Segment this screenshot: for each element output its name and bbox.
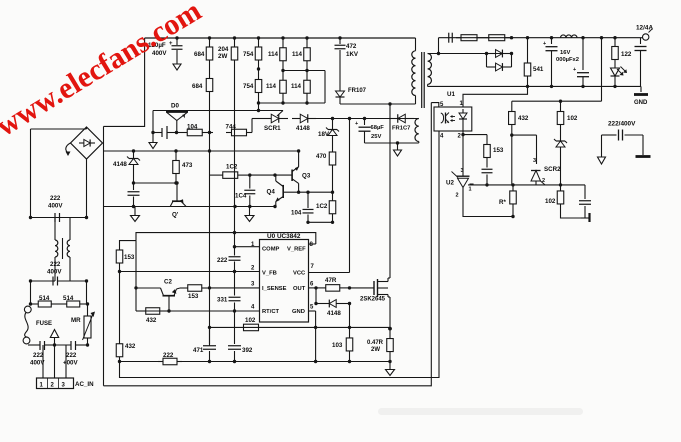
wire choke left bot xyxy=(31,257,56,281)
svg-text:+: + xyxy=(543,41,546,47)
svg-text:102: 102 xyxy=(567,115,578,122)
svg-text:4: 4 xyxy=(251,305,255,311)
text 222/400V xyxy=(608,121,636,128)
capacitor Qp base xyxy=(128,183,140,207)
svg-text:3: 3 xyxy=(533,158,536,164)
svg-text:GND: GND xyxy=(634,100,648,106)
wire 102b bottom xyxy=(561,210,582,218)
svg-text:1: 1 xyxy=(469,187,472,193)
scan smudge xyxy=(378,408,583,415)
wire AC left rail 2 xyxy=(30,281,32,304)
transistor C2 xyxy=(136,279,180,313)
wire gndpin down xyxy=(315,327,317,361)
ground y right xyxy=(636,135,651,157)
pin 8 V_REF xyxy=(287,242,316,253)
wire line 327 xyxy=(210,326,391,328)
inductor sec filter xyxy=(561,35,578,38)
wire AC left rail xyxy=(30,129,32,218)
wire choke right top xyxy=(69,218,71,241)
wire rtct right xyxy=(170,310,260,312)
diode FR107 aux xyxy=(389,114,414,131)
text 16V 1000uFx2 xyxy=(556,50,579,63)
wire 114 bottom link xyxy=(259,102,326,104)
capacitor 1C4 xyxy=(235,175,255,206)
opto pin1 xyxy=(460,101,464,107)
resistor 1C2 b xyxy=(316,192,336,222)
svg-text:SCR2: SCR2 xyxy=(544,166,561,173)
wire out to 4148 xyxy=(315,288,317,304)
svg-text:MR: MR xyxy=(71,317,81,324)
wire line 192 xyxy=(283,191,332,193)
opto arrows xyxy=(450,115,455,122)
svg-text:1C2: 1C2 xyxy=(316,203,328,210)
diode FR107 snubber xyxy=(336,84,367,104)
resistor 47R xyxy=(316,277,350,291)
resistor 153 left xyxy=(116,245,135,268)
svg-text:I_SENSE: I_SENSE xyxy=(262,286,287,292)
fuse FUSE xyxy=(23,306,52,344)
watermark www.elecfans.com xyxy=(0,0,207,143)
svg-text:153: 153 xyxy=(188,293,199,300)
resistor 541 xyxy=(524,57,544,82)
node ac mid triangle xyxy=(50,330,58,347)
optocoupler U1 box xyxy=(434,91,472,131)
wire u2 ref xyxy=(470,183,474,186)
ground below D0 row xyxy=(149,133,157,149)
diode rect upper xyxy=(487,50,512,58)
wire 114 row link xyxy=(283,70,325,72)
wire sec gnd rail xyxy=(428,85,641,87)
node 114 bottoms xyxy=(257,101,309,104)
node bus junction xyxy=(175,36,178,39)
svg-text:222/400V: 222/400V xyxy=(608,121,636,128)
svg-text:222: 222 xyxy=(217,257,228,264)
node xcap1 xyxy=(29,216,88,219)
svg-text:18V: 18V xyxy=(318,131,330,138)
svg-text:3: 3 xyxy=(251,282,255,288)
wire drain xyxy=(388,104,390,278)
wire reg right drop xyxy=(584,185,586,199)
svg-text:2W: 2W xyxy=(218,53,227,60)
svg-text:FUSE: FUSE xyxy=(36,321,52,327)
svg-text:25V: 25V xyxy=(371,134,381,140)
wire 754 to gate line xyxy=(257,103,260,112)
svg-text:U0 UC3842: U0 UC3842 xyxy=(267,233,301,240)
svg-text:16V: 16V xyxy=(560,50,570,56)
wire line151 xyxy=(104,150,299,152)
svg-text:+: + xyxy=(355,121,358,127)
svg-text:0.47R: 0.47R xyxy=(367,340,384,346)
resistor 754 lower xyxy=(243,69,262,103)
svg-text:RT/CT: RT/CT xyxy=(262,309,280,315)
svg-text:OUT: OUT xyxy=(293,286,306,292)
svg-text:SCR1: SCR1 xyxy=(264,125,281,132)
node zener top xyxy=(331,117,334,120)
wire 432 left drop xyxy=(119,272,121,340)
wire isense rail xyxy=(209,133,211,347)
pin 3 I_SENSE xyxy=(210,282,287,293)
svg-text:FR1C7: FR1C7 xyxy=(392,126,410,132)
ground aux xyxy=(394,143,402,156)
wire scr2 anode link xyxy=(512,135,537,164)
svg-text:COMP: COMP xyxy=(262,247,280,253)
led indicator xyxy=(611,62,628,86)
resistor R* sec xyxy=(499,185,516,210)
capacitor output xyxy=(635,38,647,87)
svg-text:122: 122 xyxy=(621,51,632,58)
svg-text:514: 514 xyxy=(39,295,50,302)
svg-text:471: 471 xyxy=(193,347,204,354)
wire gate line xyxy=(350,287,375,289)
resistor 153 sec xyxy=(484,141,504,161)
svg-text:4148: 4148 xyxy=(113,161,127,168)
wire gnd line 206 xyxy=(104,206,276,208)
resistor 102 sec xyxy=(557,101,578,128)
transformer core xyxy=(422,52,425,108)
resistor 744 xyxy=(226,123,253,135)
inductor common-mode choke xyxy=(55,238,70,259)
wire 744 to SCR1 xyxy=(252,119,262,133)
wire vref loop xyxy=(136,233,316,244)
resistor 473 xyxy=(173,151,193,183)
svg-text:432: 432 xyxy=(125,343,136,350)
ground sec reg xyxy=(581,213,590,222)
wire bridge plus rail xyxy=(103,126,105,385)
opto pin2 xyxy=(458,131,465,140)
capacitor 471 xyxy=(193,327,216,361)
wire 153 to vfb xyxy=(118,268,121,273)
wire pin2 node right xyxy=(463,135,487,141)
wire choke left top xyxy=(54,218,56,241)
capacitor Y 222/400V xyxy=(602,130,644,141)
resistor 432 rtct xyxy=(136,308,170,324)
svg-text:3: 3 xyxy=(461,168,464,174)
svg-text:5: 5 xyxy=(310,305,314,311)
node bus junction xyxy=(257,36,260,39)
svg-text:222: 222 xyxy=(33,352,44,359)
svg-text:U2: U2 xyxy=(446,180,454,187)
svg-text:432: 432 xyxy=(146,317,157,324)
svg-text:V_REF: V_REF xyxy=(287,247,306,253)
capacitor 1000uF b xyxy=(573,38,589,87)
node sec top xyxy=(437,52,513,55)
opto transistor xyxy=(441,113,449,124)
svg-text:AC_IN: AC_IN xyxy=(75,381,94,388)
svg-text:GND: GND xyxy=(292,309,305,315)
svg-text:432: 432 xyxy=(518,115,529,122)
wire 541 top xyxy=(527,38,529,57)
wire SCR1 gate link xyxy=(277,111,283,117)
node led supply xyxy=(559,100,562,103)
resistor 103 xyxy=(332,327,353,361)
svg-text:222: 222 xyxy=(163,352,174,359)
resistor sec snub 1 xyxy=(456,35,482,41)
capacitor 472 1KV xyxy=(335,38,359,84)
svg-text:102: 102 xyxy=(545,198,556,205)
node line206 xyxy=(132,205,277,208)
svg-text:222: 222 xyxy=(50,261,61,268)
svg-text:331: 331 xyxy=(217,297,228,304)
capacitor 222/400V ac right xyxy=(55,341,88,367)
connector AC_IN 1 2 3 xyxy=(37,378,95,389)
node bus junction xyxy=(233,36,236,39)
wire bridge top xyxy=(31,127,87,129)
resistor 514 b xyxy=(59,295,88,307)
svg-text:4: 4 xyxy=(440,134,444,140)
wire sec top lead xyxy=(428,53,512,55)
svg-text:+: + xyxy=(573,67,576,73)
wire aux gnd line xyxy=(365,142,419,144)
wire vref loop left xyxy=(120,241,137,311)
thyristor SCR1 xyxy=(262,114,288,132)
wire bus to bridge link xyxy=(104,38,145,126)
ground source xyxy=(386,362,395,376)
node vcc tap xyxy=(348,117,366,120)
transistor D0 xyxy=(153,103,283,133)
capacitor sec snubber xyxy=(449,33,453,43)
pin 5 GND xyxy=(292,305,316,316)
varistor MR xyxy=(71,304,95,347)
node line192 xyxy=(297,191,334,194)
resistor 204 2W xyxy=(218,38,238,69)
svg-text:472: 472 xyxy=(346,43,357,50)
svg-text:2: 2 xyxy=(456,193,459,199)
svg-text:541: 541 xyxy=(533,66,544,73)
node vref loop xyxy=(233,231,236,234)
resistor 514 a xyxy=(31,295,60,307)
svg-text:684: 684 xyxy=(194,51,205,58)
wire gate node down xyxy=(349,304,351,328)
resistor 114 c xyxy=(292,38,310,71)
capacitor X 222/400V lower xyxy=(47,261,62,286)
transformer aux winding xyxy=(415,119,419,144)
wire fb tap xyxy=(463,86,528,107)
node 47R right xyxy=(348,286,351,289)
svg-text:104: 104 xyxy=(187,123,198,130)
svg-text:754: 754 xyxy=(243,83,254,90)
wire xcap1 row xyxy=(31,217,87,219)
capacitor X 222/400V upper xyxy=(48,195,63,222)
pin 6 OUT xyxy=(293,282,316,293)
node 4148 ends xyxy=(314,302,351,305)
svg-text:VCC: VCC xyxy=(293,271,306,277)
resistor 114 b xyxy=(266,71,286,104)
svg-text:102: 102 xyxy=(245,317,256,324)
node bus junction xyxy=(305,36,308,39)
resistor 754 upper xyxy=(243,38,262,69)
opto led xyxy=(459,109,467,131)
svg-text:D0: D0 xyxy=(171,103,179,110)
svg-text:400V: 400V xyxy=(47,269,62,276)
svg-text:400V: 400V xyxy=(48,203,63,210)
wire gnd line 361 b xyxy=(182,361,390,363)
node bus junction xyxy=(208,36,211,39)
wire 4148-473 link xyxy=(134,172,178,183)
wire sec bus xyxy=(439,37,641,39)
diode rect lower xyxy=(487,63,512,71)
capacitor 68uF 25V xyxy=(355,119,384,144)
wire snubber bottom xyxy=(340,103,390,105)
wire 432 sec down xyxy=(510,128,513,185)
svg-text:684: 684 xyxy=(192,83,203,90)
wire right of 114 bank xyxy=(324,71,326,104)
resistor 102 sec2 xyxy=(545,185,564,210)
capacitor 1000uF a xyxy=(543,38,558,87)
capacitor 104 q xyxy=(291,192,314,224)
svg-text:222: 222 xyxy=(50,195,61,202)
wire diode row to vcc node xyxy=(316,118,419,120)
wire D0 left leg xyxy=(152,111,154,133)
wire u2 cathode xyxy=(462,135,464,169)
pin 2 V_FB xyxy=(120,266,277,277)
svg-text:4148: 4148 xyxy=(327,310,341,317)
svg-text:2: 2 xyxy=(458,134,462,140)
wire reg line 184.9 xyxy=(468,184,585,186)
svg-text:392: 392 xyxy=(242,347,253,354)
node 514 row xyxy=(29,302,89,305)
wire 1C2b bottom xyxy=(308,221,334,224)
capacitor 392 xyxy=(228,311,253,362)
mosfet 2SK2645 xyxy=(360,278,388,303)
wire 470 to line192 xyxy=(332,172,334,192)
wire led supply xyxy=(512,36,603,105)
resistor 1C2 q3 xyxy=(210,164,252,179)
resistor 222 gnd xyxy=(158,352,182,365)
wire 684 chain down xyxy=(209,101,211,133)
opto pin5 xyxy=(431,102,444,108)
wire cap row xyxy=(153,132,177,134)
wire sec winding bottom xyxy=(427,84,429,86)
svg-text:204: 204 xyxy=(218,46,229,53)
svg-text:3: 3 xyxy=(62,383,66,389)
node reg line xyxy=(485,183,562,186)
zener 4148 left xyxy=(113,151,140,172)
transistor Qp xyxy=(170,181,186,218)
resistor 114 d xyxy=(291,71,310,104)
bridge rectifier xyxy=(66,127,103,159)
wire vcc drop xyxy=(349,119,351,273)
svg-text:103: 103 xyxy=(332,342,343,349)
wire q3 base line xyxy=(251,174,292,176)
svg-text:2: 2 xyxy=(51,383,55,389)
svg-text:47R: 47R xyxy=(325,277,337,284)
svg-text:Q': Q' xyxy=(172,212,179,219)
wire mr rail xyxy=(86,281,88,304)
svg-text:8: 8 xyxy=(310,242,314,248)
wire comp stub xyxy=(244,246,246,248)
resistor 432 sec xyxy=(509,105,529,128)
wire rect lower branch xyxy=(487,54,512,68)
resistor 432 left xyxy=(116,339,136,362)
node comp xyxy=(233,245,245,273)
svg-text:000µFx2: 000µFx2 xyxy=(556,57,579,63)
ground arrow mid xyxy=(245,207,254,222)
svg-text:V_FB: V_FB xyxy=(262,271,277,277)
node sec bus xyxy=(510,36,617,39)
capacitor 153 comp xyxy=(482,161,493,185)
terminal 12/4A xyxy=(636,25,653,41)
svg-text:C2: C2 xyxy=(164,279,172,286)
zener sec xyxy=(554,128,567,185)
svg-text:104: 104 xyxy=(291,210,302,217)
node line327 xyxy=(314,326,392,331)
svg-text:6: 6 xyxy=(310,282,314,288)
node sec gnd rail xyxy=(526,85,617,88)
diode 4148 row xyxy=(292,114,316,132)
svg-text:470: 470 xyxy=(316,153,327,160)
node bus junction xyxy=(281,36,284,39)
ground below 120uF xyxy=(173,57,181,70)
capacitor 331 xyxy=(217,272,241,313)
ground sec xyxy=(634,86,648,106)
thyristor SCR2 xyxy=(531,158,561,185)
transformer primary winding xyxy=(390,38,416,104)
svg-text:1KV: 1KV xyxy=(346,51,359,58)
resistor sec snub 2 xyxy=(482,35,512,41)
capacitor 120uF/400V xyxy=(148,38,183,57)
node xcap2 xyxy=(29,279,88,282)
wire primary ground rail xyxy=(120,131,440,378)
tl431 U2 xyxy=(446,168,472,199)
svg-text:2: 2 xyxy=(542,178,545,184)
wire main HV bus xyxy=(145,37,416,39)
svg-text:Q3: Q3 xyxy=(302,173,311,180)
pin 1 COMP xyxy=(245,242,280,253)
node snubber-drain xyxy=(388,102,391,105)
resistor 104 xyxy=(177,123,214,135)
wire u2 anode xyxy=(463,190,513,217)
node line151 xyxy=(132,149,300,152)
svg-text:68µF: 68µF xyxy=(371,125,385,131)
svg-text:153: 153 xyxy=(493,147,504,154)
svg-text:2SK2645: 2SK2645 xyxy=(360,297,386,303)
wire 541 bottom xyxy=(527,82,529,86)
diode 4148 gate xyxy=(316,300,350,317)
svg-text:744: 744 xyxy=(226,123,237,130)
transistor Q3 xyxy=(292,151,311,192)
svg-text:473: 473 xyxy=(182,162,193,169)
wire r* bottom xyxy=(511,210,514,218)
resistor 122 xyxy=(612,38,632,62)
svg-text:114: 114 xyxy=(292,51,303,58)
svg-text:114: 114 xyxy=(268,51,279,58)
svg-text:1: 1 xyxy=(40,383,44,389)
svg-text:514: 514 xyxy=(63,295,74,302)
op-amp U0 UC3842 box xyxy=(260,233,309,322)
svg-text:114: 114 xyxy=(266,83,277,90)
svg-text:114: 114 xyxy=(291,83,302,90)
svg-text:4148: 4148 xyxy=(296,125,310,132)
node 473 bottom xyxy=(132,181,178,184)
svg-text:www.elecfans.com: www.elecfans.com xyxy=(0,0,207,143)
resistor 114 a xyxy=(268,38,286,71)
resistor 684 upper xyxy=(194,38,213,69)
node 114a bottom xyxy=(281,69,308,72)
wire gnd line 361 xyxy=(120,361,159,363)
svg-text:1C4: 1C4 xyxy=(235,193,247,200)
node c2 base xyxy=(134,286,137,289)
svg-text:2: 2 xyxy=(251,266,255,272)
node 754 mid xyxy=(257,67,260,70)
transistor Q4 xyxy=(267,175,284,206)
ground arrow left xyxy=(131,207,140,222)
wire gnd pin drop xyxy=(315,311,317,327)
capacitor D0 row xyxy=(162,126,172,139)
node D0 row xyxy=(151,131,178,134)
opto pin4 xyxy=(440,134,444,140)
resistor 102 gnd xyxy=(244,317,259,331)
svg-text:R*: R* xyxy=(499,199,506,206)
